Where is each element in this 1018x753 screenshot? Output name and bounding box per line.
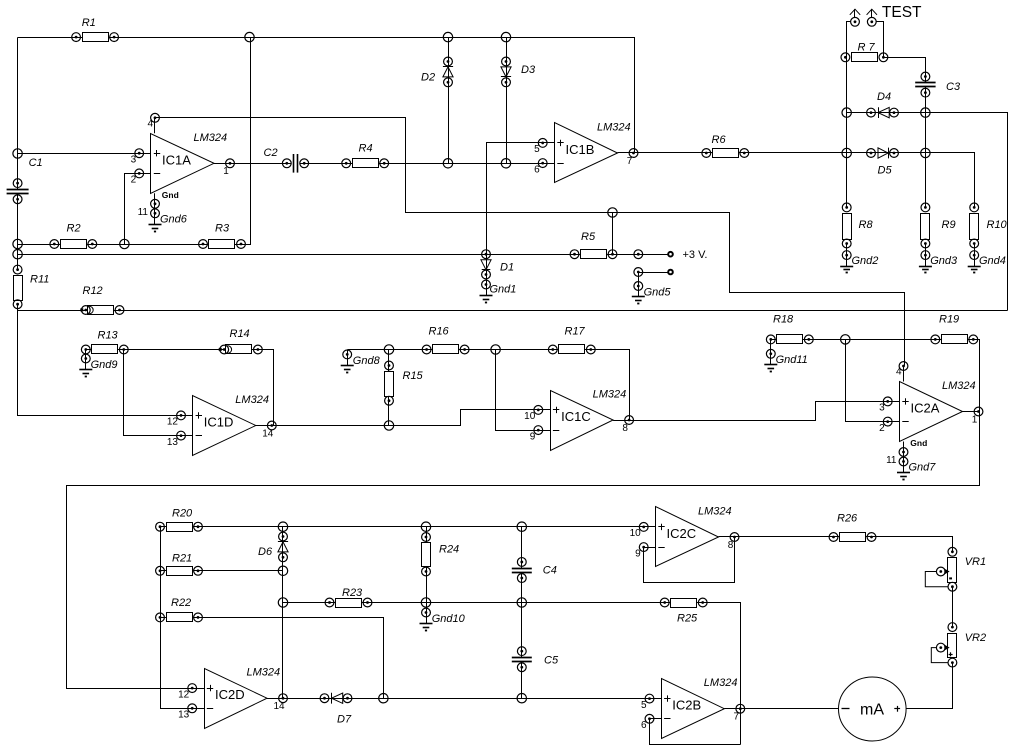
- wire: [847, 113, 1008, 311]
- wire: [487, 143, 543, 255]
- svg-text:R21: R21: [172, 553, 192, 565]
- wire: [161, 527, 193, 709]
- wire: [18, 310, 1008, 312]
- svg-text:Gnd8: Gnd8: [353, 355, 381, 367]
- capacitor C4: [512, 558, 557, 583]
- wire: [257, 350, 274, 426]
- node left rail / R2: [13, 239, 22, 248]
- resistor R10: [970, 203, 1008, 248]
- wire: [735, 537, 953, 552]
- terminal +3V: [668, 249, 707, 261]
- svg-text:TEST: TEST: [882, 4, 922, 21]
- capacitor C3: [915, 72, 961, 97]
- resistor R19: [931, 314, 978, 344]
- resistor R5: [570, 231, 617, 259]
- svg-text:+3 V.: +3 V.: [683, 249, 708, 261]
- wire: [348, 350, 630, 421]
- diode D1: [481, 250, 514, 279]
- svg-text:LM324: LM324: [593, 389, 627, 401]
- op-amp IC1C: [524, 389, 633, 451]
- svg-text:LM324: LM324: [235, 394, 269, 406]
- op-amp IC2B: [641, 677, 745, 738]
- wire: [388, 350, 390, 426]
- svg-text:R5: R5: [581, 231, 596, 243]
- svg-text:Gnd5: Gnd5: [644, 287, 672, 299]
- wire: [639, 272, 669, 274]
- wire: [282, 527, 284, 699]
- resistor R25: [660, 598, 707, 624]
- svg-text:R24: R24: [439, 544, 459, 556]
- wire: [771, 339, 974, 341]
- svg-text:LM324: LM324: [247, 667, 281, 679]
- node R7 leg / D4: [842, 108, 851, 117]
- resistor R16: [422, 326, 469, 354]
- svg-text:LM324: LM324: [698, 506, 732, 518]
- svg-text:4: 4: [896, 367, 902, 378]
- wire: [496, 350, 539, 431]
- resistor R3: [199, 223, 246, 249]
- svg-text:R12: R12: [83, 285, 103, 297]
- resistor R11: [13, 265, 49, 308]
- svg-text:Gnd: Gnd: [162, 190, 179, 200]
- connector +3V pin: [634, 250, 643, 259]
- node C3 leg / D4: [921, 108, 930, 117]
- wire: [644, 537, 735, 583]
- ground Gnd1: [480, 275, 517, 303]
- wire: [18, 304, 181, 416]
- node R20 wire / R24: [421, 522, 430, 531]
- wire: [630, 402, 888, 421]
- wire: [18, 254, 639, 256]
- ground Gnd10: [420, 603, 466, 631]
- connector Gnd5 pin: [634, 268, 643, 277]
- node A top rail / R3: [245, 32, 254, 41]
- wire: [506, 38, 508, 164]
- svg-text:IC2D: IC2D: [215, 687, 245, 702]
- resistor R23: [325, 587, 372, 608]
- svg-text:12: 12: [178, 689, 190, 700]
- resistor R18: [766, 314, 813, 344]
- wire: [877, 22, 884, 58]
- wire: [952, 587, 954, 628]
- wire: [272, 410, 539, 426]
- wire: [283, 603, 741, 745]
- svg-text:R9: R9: [942, 219, 956, 231]
- svg-text:2: 2: [131, 175, 137, 186]
- potentiometer VR1: [925, 547, 986, 591]
- svg-text:C5: C5: [544, 655, 559, 667]
- node R16R17 / pin9: [491, 345, 500, 354]
- ground Gnd3: [919, 244, 958, 273]
- wire: [612, 213, 614, 255]
- svg-text:2: 2: [879, 423, 885, 434]
- svg-text:C1: C1: [29, 157, 43, 169]
- svg-text:5: 5: [641, 700, 647, 711]
- svg-text:R25: R25: [677, 613, 698, 625]
- svg-text:D1: D1: [500, 262, 514, 274]
- svg-text:12: 12: [167, 417, 179, 428]
- wire: [125, 174, 140, 245]
- wire: [161, 570, 283, 572]
- node R16 wire / R15: [384, 345, 393, 354]
- svg-text:R13: R13: [98, 330, 119, 342]
- svg-text:R22: R22: [171, 597, 191, 609]
- resistor R9: [921, 203, 956, 248]
- wire: [124, 350, 181, 436]
- svg-text:IC2A: IC2A: [911, 401, 940, 416]
- node R20 wire / C4: [517, 522, 526, 531]
- svg-text:8: 8: [728, 540, 734, 551]
- svg-text:Gnd2: Gnd2: [852, 255, 879, 267]
- svg-text:R8: R8: [859, 219, 874, 231]
- svg-text:R17: R17: [565, 326, 586, 338]
- svg-text:Gnd1: Gnd1: [490, 284, 517, 296]
- ground Gnd5: [632, 272, 672, 304]
- svg-text:3: 3: [131, 155, 137, 166]
- resistor R6: [702, 134, 749, 158]
- svg-text:13: 13: [178, 710, 190, 721]
- svg-text:9: 9: [530, 431, 536, 442]
- wire: [161, 526, 644, 528]
- wire: [283, 698, 650, 700]
- wire: [86, 349, 257, 351]
- diode D2: [421, 57, 453, 87]
- capacitor C1: [7, 157, 43, 204]
- wire: [448, 38, 450, 164]
- svg-text:C3: C3: [946, 81, 961, 93]
- svg-text:D3: D3: [521, 64, 536, 76]
- svg-text:LM324: LM324: [942, 380, 976, 392]
- resistor R_7: [841, 42, 888, 62]
- svg-text:R2: R2: [67, 223, 81, 235]
- svg-text:8: 8: [622, 423, 628, 434]
- node R23 wire / C4 C5: [517, 598, 526, 607]
- resistor R20: [156, 508, 203, 532]
- svg-text:Gnd10: Gnd10: [432, 613, 466, 625]
- svg-text:11: 11: [886, 455, 897, 466]
- wire: [67, 340, 980, 689]
- resistor R17: [548, 326, 595, 354]
- resistor R1: [72, 17, 119, 42]
- svg-text:IC1B: IC1B: [566, 142, 595, 157]
- wire: [18, 38, 635, 153]
- potentiometer VR2: [931, 623, 986, 667]
- wire: [18, 153, 140, 155]
- svg-text:R15: R15: [403, 370, 424, 382]
- svg-text:Gnd: Gnd: [910, 438, 927, 448]
- node R23 wire / D6: [278, 598, 287, 607]
- op-amp IC2D: [178, 667, 287, 729]
- node power rail / R5: [608, 208, 617, 217]
- svg-text:R1: R1: [82, 17, 96, 29]
- svg-text:11: 11: [138, 207, 149, 218]
- ground Gnd9: [79, 350, 117, 377]
- svg-text:Gnd3: Gnd3: [930, 255, 958, 267]
- svg-text:6: 6: [641, 720, 647, 731]
- node C3 leg / D5: [921, 148, 930, 157]
- test point 1: [850, 9, 860, 26]
- resistor R22: [156, 597, 203, 622]
- resistor R26: [829, 513, 876, 542]
- svg-text:IC1D: IC1D: [204, 415, 234, 430]
- svg-text:Gnd4: Gnd4: [979, 255, 1006, 267]
- ground Gnd4: [968, 244, 1006, 273]
- resistor R13: [81, 330, 128, 354]
- node R15 / IC1D out wire: [384, 421, 393, 430]
- svg-text:R18: R18: [773, 314, 794, 326]
- wire: [873, 663, 953, 709]
- svg-text:7: 7: [734, 712, 740, 723]
- op-amp IC2C: [630, 506, 739, 567]
- op-amp IC2A: [879, 362, 983, 480]
- svg-text:7: 7: [627, 156, 633, 167]
- wire: [521, 573, 523, 603]
- svg-text:14: 14: [262, 428, 274, 439]
- svg-text:D6: D6: [258, 546, 273, 558]
- svg-text:R10: R10: [987, 219, 1008, 231]
- node D3 / R4 wire: [501, 159, 510, 168]
- svg-text:mA: mA: [860, 702, 884, 719]
- wire: [155, 118, 905, 366]
- svg-text:10: 10: [630, 528, 642, 539]
- svg-text:LM324: LM324: [597, 122, 631, 134]
- node pin2 / R2R3: [120, 239, 129, 248]
- svg-text:D4: D4: [877, 91, 891, 103]
- wire: [650, 720, 741, 745]
- terminal Gnd5 pin: [668, 270, 673, 275]
- diode D7: [320, 693, 352, 726]
- svg-text:R6: R6: [712, 134, 727, 146]
- op-amp IC1D: [167, 394, 276, 456]
- svg-text:R 7: R 7: [858, 42, 876, 54]
- svg-text:4: 4: [147, 118, 153, 129]
- svg-text:Gnd7: Gnd7: [909, 462, 937, 474]
- node R20 wire / D6: [278, 522, 287, 531]
- svg-text:IC2C: IC2C: [667, 526, 697, 541]
- node D2 / R4 wire: [443, 159, 452, 168]
- wire: [300, 163, 543, 165]
- svg-text:D7: D7: [337, 714, 352, 726]
- node R7 leg / D5: [842, 148, 851, 157]
- resistor R15: [385, 361, 424, 405]
- label TEST: [882, 4, 922, 21]
- svg-text:R20: R20: [172, 508, 193, 520]
- svg-text:13: 13: [167, 437, 179, 448]
- wire: [17, 38, 19, 190]
- svg-text:LM324: LM324: [194, 132, 228, 144]
- diode D5: [867, 148, 899, 177]
- svg-text:Gnd9: Gnd9: [91, 359, 118, 371]
- capacitor C5: [512, 647, 559, 672]
- wire: [741, 708, 839, 710]
- svg-text:D5: D5: [878, 165, 893, 177]
- svg-text:R19: R19: [939, 314, 959, 326]
- node R23 wire / R24: [421, 598, 430, 607]
- diode D4: [867, 91, 899, 118]
- resistor R24: [422, 533, 460, 576]
- svg-text:R4: R4: [359, 143, 373, 155]
- svg-text:1: 1: [972, 414, 978, 425]
- svg-text:Gnd11: Gnd11: [776, 354, 808, 366]
- resistor R21: [156, 553, 203, 576]
- svg-text:R23: R23: [342, 587, 363, 599]
- wire: [884, 58, 926, 83]
- node R18R19 / pin2: [841, 335, 850, 344]
- test point 2: [867, 9, 877, 26]
- svg-text:IC2B: IC2B: [672, 698, 701, 713]
- svg-text:9: 9: [635, 548, 641, 559]
- svg-text:R16: R16: [429, 326, 450, 338]
- resistor R12: [80, 285, 124, 315]
- svg-text:C4: C4: [543, 565, 557, 577]
- svg-text:D2: D2: [421, 72, 435, 84]
- op-amp IC1A: [131, 113, 235, 231]
- meter mA: [839, 677, 907, 741]
- svg-text:14: 14: [273, 701, 285, 712]
- wire: [925, 87, 927, 208]
- wire: [847, 22, 851, 208]
- svg-text:R3: R3: [215, 223, 230, 235]
- capacitor C2: [264, 147, 309, 173]
- wire: [161, 618, 384, 699]
- resistor R2: [50, 223, 97, 249]
- svg-text:1: 1: [223, 166, 229, 177]
- resistor R8: [842, 203, 873, 248]
- svg-text:10: 10: [524, 411, 536, 422]
- svg-text:VR2: VR2: [965, 632, 986, 644]
- wire: [846, 340, 888, 422]
- svg-text:3: 3: [879, 403, 885, 414]
- ground Gnd11: [764, 339, 808, 371]
- svg-text:C2: C2: [264, 147, 278, 159]
- diode D6: [258, 532, 288, 562]
- svg-text:R14: R14: [230, 328, 250, 340]
- diode D3: [501, 57, 536, 87]
- resistor R14: [219, 328, 263, 354]
- node left rail / +3V: [13, 250, 22, 259]
- svg-text:6: 6: [534, 164, 540, 175]
- resistor R4: [342, 143, 389, 168]
- node top rail / D2: [443, 32, 452, 41]
- wire: [521, 603, 523, 658]
- node out rail / R22: [379, 694, 388, 703]
- svg-text:5: 5: [534, 144, 540, 155]
- op-amp IC1B: [534, 122, 638, 183]
- node top rail / D3: [501, 32, 510, 41]
- svg-text:LM324: LM324: [704, 677, 738, 689]
- ground Gnd8: [341, 350, 381, 373]
- wire: [521, 662, 523, 699]
- node R21 wire / D6: [278, 566, 287, 575]
- wire: [639, 254, 669, 256]
- wire: [426, 527, 428, 603]
- ground Gnd2: [840, 244, 878, 273]
- svg-text:Gnd6: Gnd6: [160, 213, 188, 225]
- svg-text:R11: R11: [30, 274, 49, 286]
- wire: [17, 194, 19, 270]
- wire: [634, 153, 975, 208]
- wire: [18, 38, 251, 245]
- node C1 / pin3: [13, 149, 22, 158]
- wire: [231, 163, 291, 165]
- node out rail / C5: [517, 694, 526, 703]
- wire: [521, 527, 523, 569]
- svg-text:IC1A: IC1A: [162, 152, 191, 167]
- svg-text:R26: R26: [837, 513, 858, 525]
- svg-text:VR1: VR1: [965, 556, 986, 568]
- svg-text:IC1C: IC1C: [561, 409, 591, 424]
